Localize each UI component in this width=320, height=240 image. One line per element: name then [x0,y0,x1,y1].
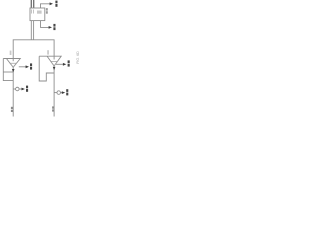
svg-text:FIG. 6D: FIG. 6D [76,51,80,64]
